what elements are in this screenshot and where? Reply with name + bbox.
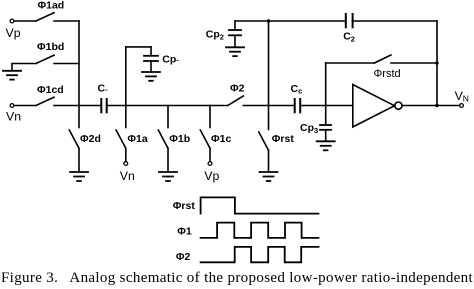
top wire with C2 — [235, 20, 346, 22]
svg-text:Figure 3.: Figure 3. — [1, 270, 58, 286]
terminal Vn (phi1a) — [124, 162, 128, 166]
capacitor C2 — [345, 14, 347, 27]
capacitor Cp1 — [150, 47, 152, 56]
svg-text:Φ2: Φ2 — [230, 83, 245, 95]
wire to Cp1 — [126, 46, 151, 48]
wire to inverter — [300, 105, 353, 107]
svg-text:Φrst: Φrst — [272, 133, 295, 145]
svg-text:Φ1ad: Φ1ad — [38, 0, 65, 11]
svg-text:Φrst: Φrst — [173, 200, 196, 212]
svg-text:Φ1b: Φ1b — [169, 133, 190, 145]
svg-text:Cp-: Cp- — [162, 53, 179, 65]
svg-text:Vp: Vp — [204, 169, 219, 183]
node junction dot top wire x268.5 — [267, 19, 270, 22]
capacitor Cp2 — [234, 21, 236, 30]
wire after phi2 — [243, 105, 294, 107]
wire inverter output — [402, 105, 459, 107]
svg-text:Analog schematic of the propos: Analog schematic of the proposed low-pow… — [69, 270, 473, 286]
svg-text:Cc: Cc — [291, 83, 303, 96]
svg-text:VN: VN — [455, 89, 469, 104]
node vertical x125.8 top — [125, 47, 127, 106]
switch phi1ad — [14, 20, 36, 22]
switch phi1a — [125, 106, 127, 128]
ground (phi1bd left) — [12, 64, 36, 71]
svg-text:Φ1bd: Φ1bd — [37, 41, 64, 53]
ground (Cp3) — [317, 140, 335, 142]
switch phirstd — [326, 62, 375, 64]
ground (Cp1) — [142, 71, 160, 73]
svg-text:C2: C2 — [343, 31, 355, 44]
node vertical x268.5 — [268, 21, 270, 106]
op-amp inverter U1 — [353, 85, 395, 128]
waveform phi1 — [201, 223, 319, 238]
ground (Cp2) — [226, 46, 244, 48]
waveform phi2 — [201, 247, 319, 262]
terminal Vp (phi1c) — [208, 162, 212, 166]
svg-text:Vp: Vp — [6, 26, 21, 40]
svg-text:Φ2: Φ2 — [176, 251, 191, 263]
switch phi1c — [209, 106, 211, 128]
capacitor Cp3 — [320, 124, 331, 126]
switch phi1bd — [36, 55, 54, 63]
svg-text:Φ1c: Φ1c — [211, 133, 231, 145]
capacitor C1 — [100, 99, 102, 112]
capacitor Cc — [294, 99, 296, 112]
svg-text:Φ2d: Φ2d — [80, 133, 101, 145]
terminal Vp — [10, 19, 14, 23]
wire main line middle — [107, 105, 228, 107]
waveform phirst — [201, 197, 319, 213]
svg-text:Cp3: Cp3 — [300, 122, 318, 135]
node junction dot phirstd x437 — [435, 61, 438, 64]
svg-text:Cp2: Cp2 — [206, 28, 224, 41]
switch phi1cd — [14, 105, 36, 107]
terminal VN — [460, 104, 464, 108]
wire main line left — [54, 105, 101, 107]
wire left bus — [78, 21, 80, 106]
ground (phi1b) — [159, 171, 177, 173]
svg-text:C-: C- — [98, 83, 109, 95]
node junction dot output x437 — [435, 104, 438, 107]
node vertical x326 — [325, 63, 327, 125]
svg-text:Vn: Vn — [120, 169, 135, 183]
svg-text:Vn: Vn — [6, 109, 21, 123]
ground (phi2d) — [70, 171, 88, 173]
svg-text:Φ1a: Φ1a — [127, 133, 147, 145]
switch phirst — [268, 106, 270, 130]
wire right vertical — [436, 21, 438, 106]
svg-text:Φrstd: Φrstd — [374, 68, 401, 80]
switch phi2d — [78, 106, 80, 128]
switch phi2 — [228, 96, 244, 106]
switch phi1b — [167, 106, 169, 128]
svg-text:Φ1cd: Φ1cd — [37, 84, 64, 96]
ground (phirst) — [260, 171, 278, 173]
terminal Vn — [10, 104, 14, 108]
svg-text:Φ1: Φ1 — [177, 226, 192, 238]
